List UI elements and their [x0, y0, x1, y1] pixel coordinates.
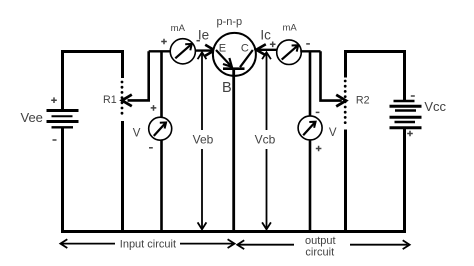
svg-text:R2: R2	[356, 95, 370, 107]
transistor Q1 circle	[213, 33, 256, 76]
wire: tap down and right to R2 wiper	[321, 51, 342, 100]
svg-text:Vcb: Vcb	[255, 132, 276, 146]
battery Vcc plate long bottom	[390, 126, 422, 129]
ammeter right needle arrowhead	[292, 45, 299, 51]
annotation arrow Vcb upper segment	[266, 54, 268, 130]
transistor emitter internal lead	[216, 50, 232, 67]
voltmeter right needle	[303, 122, 315, 135]
svg-text:mA: mA	[282, 22, 297, 33]
battery Vcc plate long	[390, 116, 422, 119]
minus sign right of right ammeter	[306, 43, 310, 45]
wire: R1 wiper tap up to emitter line	[128, 51, 149, 100]
wire: base down to bottom rail	[232, 69, 235, 232]
arrowhead output left	[237, 240, 244, 249]
annotation arrow output circuit left segment	[238, 244, 294, 246]
annotation arrow output circuit right segment	[350, 244, 408, 246]
voltmeter V (right) circle	[298, 116, 322, 140]
svg-text:V: V	[133, 127, 141, 139]
arrowhead input right	[228, 239, 235, 248]
voltmeter left needle arrowhead	[160, 122, 166, 128]
svg-text:Vcc: Vcc	[424, 99, 446, 114]
arrowhead Ie pointing right into emitter	[205, 45, 214, 56]
battery Vee plate long	[47, 120, 79, 123]
wire: voltmeter branch (right) bottom	[309, 140, 312, 232]
wire: collector to right ammeter	[257, 49, 277, 51]
plus sign at Vee top	[51, 97, 57, 103]
plus sign above left voltmeter	[151, 105, 157, 111]
resistor R1 bottom lead (solid)	[121, 121, 124, 232]
annotation arrow Veb upper segment	[201, 54, 203, 130]
annotation arrow Veb lower segment	[201, 149, 203, 228]
transistor collector internal lead	[240, 50, 253, 67]
ammeter left needle	[175, 44, 191, 58]
wire: ammeter to emitter	[195, 49, 213, 51]
voltmeter left needle	[154, 123, 166, 136]
svg-text:p-n-p: p-n-p	[216, 16, 242, 28]
wire: Vee negative terminal down to bottom rail	[61, 127, 64, 231]
resistor R1 top lead (solid)	[121, 50, 124, 78]
transistor emitter arrowhead (PNP, pointing into base)	[223, 58, 232, 67]
arrowhead Veb up	[198, 52, 207, 59]
resistor R2 body (dotted rheostat track)	[344, 81, 347, 127]
wire: voltmeter branch (left) bottom	[160, 140, 163, 231]
svg-text:Ie: Ie	[198, 28, 209, 43]
battery Vee plate short bottom	[52, 126, 74, 128]
battery Vcc plate short top	[394, 100, 415, 102]
svg-text:Input circuit: Input circuit	[120, 238, 176, 250]
svg-text:circuit: circuit	[305, 247, 334, 259]
plus sign at Vcc bottom	[407, 131, 413, 137]
battery Vee plate long top	[47, 109, 79, 112]
svg-text:output: output	[305, 235, 336, 247]
wire: tap to ammeter	[149, 50, 171, 52]
resistor R1 body (dotted rheostat track)	[121, 82, 124, 118]
svg-text:V: V	[329, 127, 337, 139]
svg-text:B: B	[222, 80, 232, 96]
arrowhead Vcb up	[262, 52, 271, 59]
ammeter right needle	[282, 46, 298, 60]
minus sign above right voltmeter	[316, 111, 320, 113]
annotation arrow input circuit right segment	[180, 243, 233, 245]
ammeter mA (right) circle	[277, 40, 302, 65]
arrowhead Ic pointing left into collector	[256, 44, 266, 55]
svg-text:Veb: Veb	[193, 132, 214, 146]
wire: Vee positive terminal up and right to R1 top	[63, 52, 123, 112]
svg-text:E: E	[219, 43, 226, 55]
resistor R2 top lead (solid)	[344, 50, 347, 78]
arrowhead input left	[60, 239, 67, 248]
svg-text:mA: mA	[171, 23, 186, 34]
svg-text:Ic: Ic	[260, 28, 271, 43]
transistor base bar	[223, 67, 245, 70]
svg-text:R1: R1	[103, 94, 117, 106]
arrowhead Veb down	[198, 222, 207, 229]
svg-text:Vee: Vee	[21, 110, 43, 125]
minus sign at Vcc top	[411, 95, 415, 97]
battery Vcc plate long	[390, 105, 422, 108]
battery Vcc plate short	[395, 109, 416, 111]
svg-text:C: C	[241, 42, 249, 54]
plus sign left of right ammeter	[270, 42, 276, 48]
battery Vee plate short	[52, 115, 73, 117]
bottom rail wire	[61, 230, 406, 233]
minus sign right of left ammeter	[197, 40, 200, 42]
resistor R2 bottom lead (solid)	[344, 130, 347, 232]
ammeter mA (left) circle	[170, 39, 195, 64]
minus sign at Vee bottom	[53, 139, 57, 141]
ammeter left needle arrowhead	[185, 44, 192, 50]
arrowhead of R2 wiper pointing right	[336, 95, 346, 107]
annotation arrow input circuit left segment	[62, 243, 116, 245]
wire: voltmeter branch (right) top	[309, 51, 312, 116]
annotation arrow Vcb lower segment	[266, 149, 268, 228]
voltmeter V (left) circle	[149, 117, 172, 140]
wire: voltmeter branch (left) top	[160, 51, 163, 117]
battery Vcc plate short	[395, 121, 416, 123]
plus sign left of left ammeter	[161, 39, 167, 45]
arrowhead output right	[403, 240, 410, 249]
plus sign below right voltmeter	[316, 146, 322, 152]
minus sign below left voltmeter	[149, 147, 153, 149]
wire: R2 top right to Vcc negative terminal	[344, 52, 405, 101]
arrowhead Vcb down	[262, 222, 271, 229]
wire: right ammeter to tap corner	[300, 50, 320, 52]
voltmeter right needle arrowhead	[309, 122, 315, 128]
arrowhead of R1 wiper pointing left	[122, 95, 132, 107]
wire: Vcc positive terminal down to bottom rail	[403, 128, 406, 232]
